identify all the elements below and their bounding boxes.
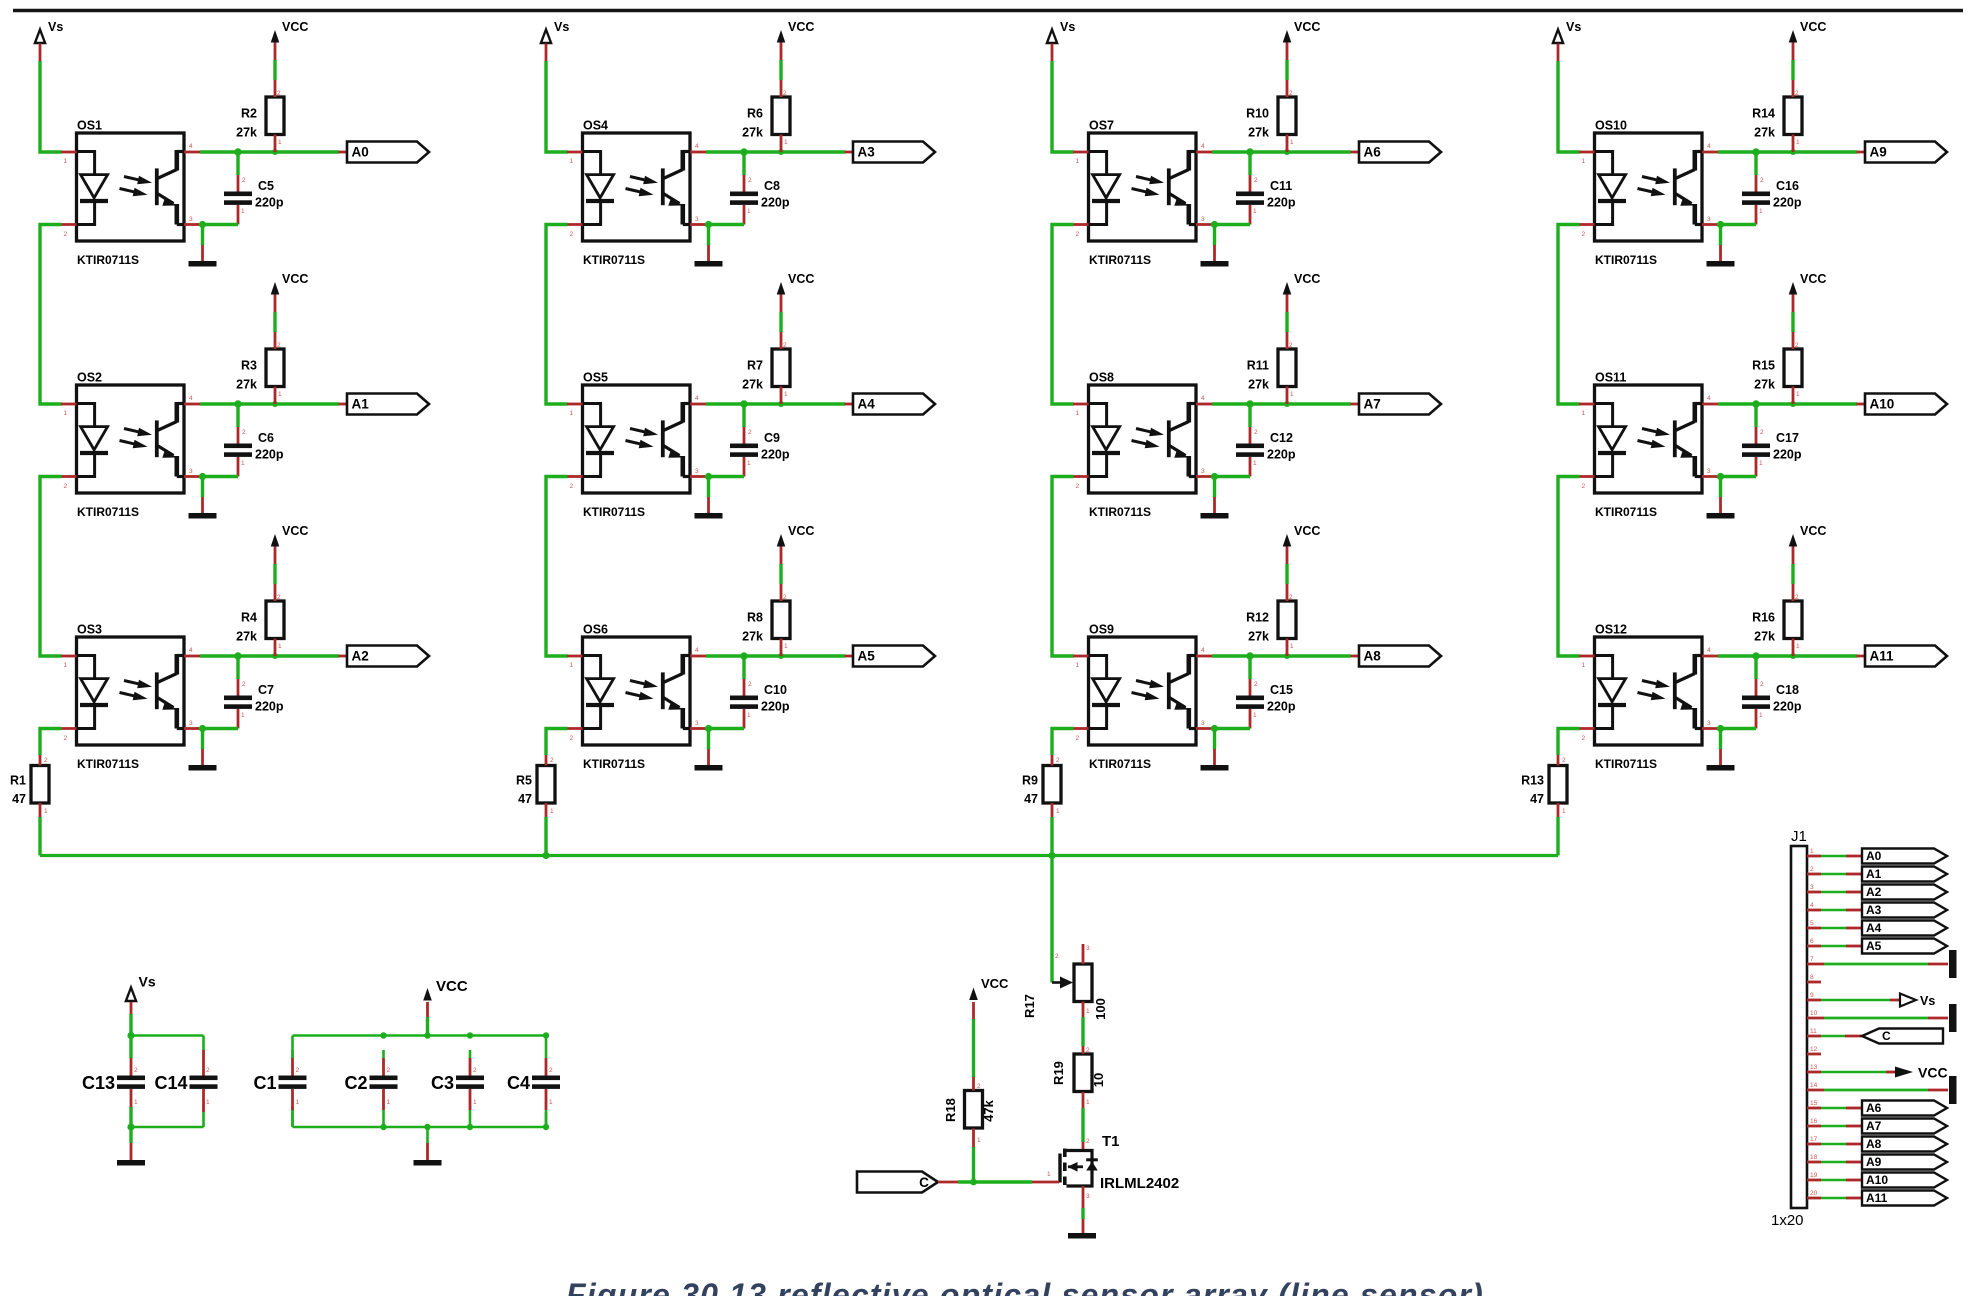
svg-text:2: 2 xyxy=(783,342,787,349)
power symbol VCC row 1 col 2 xyxy=(777,20,815,80)
svg-text:1: 1 xyxy=(1810,848,1814,855)
wire emitter node row 3 col 1 xyxy=(199,725,238,732)
svg-text:OS10: OS10 xyxy=(1595,119,1627,133)
svg-text:1: 1 xyxy=(1796,139,1800,146)
wire LED series rail row 1-2 col 3 xyxy=(1052,225,1074,405)
svg-text:R1: R1 xyxy=(10,774,26,788)
svg-text:4: 4 xyxy=(1707,143,1711,150)
svg-text:2: 2 xyxy=(1760,681,1764,688)
wire collector node row 1 col 4 xyxy=(1718,148,1857,155)
power symbol VCC row 2 col 3 xyxy=(1283,272,1321,332)
svg-text:4: 4 xyxy=(1201,395,1205,402)
svg-text:C7: C7 xyxy=(258,683,274,697)
resistor R10 27k xyxy=(1246,80,1296,152)
wire Vs rail (column 1) xyxy=(40,61,62,152)
output tag A2 xyxy=(339,646,430,667)
svg-text:20: 20 xyxy=(1810,1190,1818,1197)
svg-text:2: 2 xyxy=(570,735,574,742)
capacitor C2 xyxy=(344,1050,397,1127)
ground row 1 col 2 xyxy=(695,225,723,267)
svg-text:OS11: OS11 xyxy=(1595,371,1626,385)
svg-text:A1: A1 xyxy=(1866,867,1882,881)
svg-text:2: 2 xyxy=(783,594,787,601)
wire emitter node row 2 col 1 xyxy=(199,473,238,480)
resistor R14 27k xyxy=(1752,80,1802,152)
terminator bar xyxy=(1807,1076,1957,1104)
svg-text:KTIR0711S: KTIR0711S xyxy=(1595,505,1657,519)
svg-text:1: 1 xyxy=(549,1099,553,1106)
wire R9 to bus xyxy=(1050,817,1053,856)
svg-text:KTIR0711S: KTIR0711S xyxy=(77,253,139,267)
svg-text:A7: A7 xyxy=(1364,397,1381,412)
svg-text:R11: R11 xyxy=(1247,359,1269,373)
svg-text:R3: R3 xyxy=(241,359,257,373)
svg-text:1: 1 xyxy=(296,1099,300,1106)
transistor T1 IRLML2402 xyxy=(1047,1133,1179,1200)
svg-text:1: 1 xyxy=(1076,158,1080,165)
svg-text:3: 3 xyxy=(1086,1193,1090,1200)
capacitor C12 220p xyxy=(1236,404,1296,477)
svg-text:1: 1 xyxy=(64,410,68,417)
svg-text:R7: R7 xyxy=(747,359,763,373)
svg-text:27k: 27k xyxy=(1248,378,1269,392)
svg-text:Vs: Vs xyxy=(48,20,63,34)
svg-text:A11: A11 xyxy=(1870,649,1895,664)
svg-text:Vs: Vs xyxy=(1920,994,1935,1008)
wire LED series rail row 1-2 col 1 xyxy=(40,225,62,405)
wire collector node row 3 col 2 xyxy=(706,652,845,659)
svg-text:A5: A5 xyxy=(858,649,876,664)
svg-text:14: 14 xyxy=(1810,1082,1818,1089)
svg-text:2: 2 xyxy=(134,1067,138,1074)
wire emitter node row 3 col 2 xyxy=(705,725,744,732)
svg-text:27k: 27k xyxy=(1248,126,1269,140)
wire emitter node row 1 col 1 xyxy=(199,221,238,228)
svg-text:1: 1 xyxy=(1562,808,1566,815)
resistor R13 47 xyxy=(1521,755,1567,817)
svg-text:1: 1 xyxy=(44,808,48,815)
wire T1 source to ground xyxy=(1082,1186,1085,1233)
resistor R11 27k xyxy=(1247,332,1296,404)
connector tag A10 xyxy=(1807,1173,1947,1188)
svg-text:3: 3 xyxy=(1201,720,1205,727)
output tag A1 xyxy=(339,394,430,415)
wire emitter node row 1 col 4 xyxy=(1717,221,1756,228)
svg-text:1: 1 xyxy=(278,391,282,398)
svg-text:1: 1 xyxy=(1056,808,1060,815)
svg-text:1: 1 xyxy=(570,410,574,417)
svg-text:2: 2 xyxy=(242,681,246,688)
svg-text:C: C xyxy=(1882,1029,1891,1043)
svg-text:220p: 220p xyxy=(255,196,284,210)
svg-text:1: 1 xyxy=(1582,410,1586,417)
svg-text:1: 1 xyxy=(1759,712,1763,719)
wire collector node row 3 col 3 xyxy=(1212,652,1351,659)
svg-text:2: 2 xyxy=(1254,177,1258,184)
svg-text:4: 4 xyxy=(1707,395,1711,402)
output tag A8 xyxy=(1351,646,1442,667)
svg-text:1: 1 xyxy=(977,1137,981,1144)
output tag A3 xyxy=(845,142,936,163)
svg-text:KTIR0711S: KTIR0711S xyxy=(1089,253,1151,267)
terminator bar xyxy=(1807,950,1957,978)
ground row 3 col 1 xyxy=(189,729,217,771)
svg-text:A6: A6 xyxy=(1866,1101,1882,1115)
svg-text:KTIR0711S: KTIR0711S xyxy=(583,757,645,771)
power symbol Vs (column 3) xyxy=(1047,20,1075,61)
svg-text:2: 2 xyxy=(748,681,752,688)
svg-text:27k: 27k xyxy=(742,378,763,392)
svg-text:R14: R14 xyxy=(1752,107,1775,121)
output tag A7 xyxy=(1351,394,1442,415)
resistor R5 47 xyxy=(516,755,555,817)
svg-text:A3: A3 xyxy=(1866,903,1882,917)
svg-text:2: 2 xyxy=(977,1083,981,1090)
svg-text:220p: 220p xyxy=(1267,700,1296,714)
svg-text:C10: C10 xyxy=(764,683,787,697)
wire collector node row 1 col 3 xyxy=(1212,148,1351,155)
power symbol VCC above R18 xyxy=(969,976,1009,1077)
svg-text:18: 18 xyxy=(1810,1154,1818,1161)
ground row 2 col 1 xyxy=(189,477,217,519)
svg-text:2: 2 xyxy=(473,1067,477,1074)
svg-text:16: 16 xyxy=(1810,1118,1818,1125)
svg-text:2: 2 xyxy=(748,177,752,184)
resistor R7 27k xyxy=(742,332,790,404)
optocoupler OS5 KTIR0711S xyxy=(567,371,706,520)
svg-text:C13: C13 xyxy=(82,1073,115,1093)
svg-text:R9: R9 xyxy=(1022,774,1038,788)
optocoupler OS9 KTIR0711S xyxy=(1073,623,1212,772)
svg-text:Vs: Vs xyxy=(554,20,569,34)
svg-text:2: 2 xyxy=(44,757,48,764)
connector tag A6 xyxy=(1807,1101,1947,1116)
svg-text:VCC: VCC xyxy=(788,272,814,286)
svg-text:C4: C4 xyxy=(507,1073,530,1093)
svg-text:C17: C17 xyxy=(1776,431,1799,445)
svg-text:A9: A9 xyxy=(1866,1155,1882,1169)
svg-text:2: 2 xyxy=(64,483,68,490)
svg-text:VCC: VCC xyxy=(788,20,814,34)
ground bypass VCC group xyxy=(414,1127,442,1166)
wire common bus xyxy=(40,852,1558,859)
power symbol VCC row 3 col 2 xyxy=(777,524,815,584)
wire collector node row 2 col 2 xyxy=(706,400,845,407)
connector tag A2 xyxy=(1807,885,1947,900)
power symbol VCC row 1 col 3 xyxy=(1283,20,1321,80)
svg-text:4: 4 xyxy=(1707,647,1711,654)
svg-text:OS4: OS4 xyxy=(583,119,608,133)
svg-text:1: 1 xyxy=(1086,1008,1090,1015)
svg-text:2: 2 xyxy=(242,429,246,436)
svg-text:1: 1 xyxy=(550,808,554,815)
svg-text:KTIR0711S: KTIR0711S xyxy=(1595,757,1657,771)
connector tag A7 xyxy=(1807,1119,1947,1134)
wire emitter node row 1 col 2 xyxy=(705,221,744,228)
svg-text:17: 17 xyxy=(1810,1136,1818,1143)
svg-text:VCC: VCC xyxy=(1800,272,1826,286)
svg-text:2: 2 xyxy=(570,231,574,238)
svg-text:2: 2 xyxy=(1562,757,1566,764)
svg-text:J1: J1 xyxy=(1791,828,1807,845)
svg-text:A8: A8 xyxy=(1866,1137,1882,1151)
svg-text:A1: A1 xyxy=(352,397,370,412)
svg-text:2: 2 xyxy=(1056,757,1060,764)
ground row 2 col 4 xyxy=(1707,477,1735,519)
svg-text:A10: A10 xyxy=(1866,1173,1888,1187)
wire LED series rail row 2-3 col 2 xyxy=(546,477,568,657)
power symbol VCC row 2 col 4 xyxy=(1789,272,1827,332)
svg-text:C12: C12 xyxy=(1270,431,1293,445)
wire LED series rail row 2-3 col 4 xyxy=(1558,477,1580,657)
svg-text:1: 1 xyxy=(747,460,751,467)
connector tag A0 xyxy=(1807,849,1947,864)
svg-text:R17: R17 xyxy=(1022,994,1037,1018)
capacitor C8 220p xyxy=(730,152,790,225)
svg-text:220p: 220p xyxy=(761,196,790,210)
resistor R12 27k xyxy=(1246,584,1296,656)
svg-text:1: 1 xyxy=(1290,391,1294,398)
svg-text:OS9: OS9 xyxy=(1089,623,1114,637)
power symbol Vs (bypass group) xyxy=(126,974,156,1036)
svg-text:27k: 27k xyxy=(236,126,257,140)
svg-text:2: 2 xyxy=(1086,1047,1090,1054)
svg-text:2: 2 xyxy=(1810,866,1814,873)
svg-text:Figure 30.13 reflective optica: Figure 30.13 reflective optical sensor a… xyxy=(566,1277,1484,1296)
svg-text:A9: A9 xyxy=(1870,145,1887,160)
capacitor C3 xyxy=(431,1050,484,1127)
svg-text:2: 2 xyxy=(296,1067,300,1074)
ground bypass Vs group xyxy=(117,1127,145,1166)
svg-text:R19: R19 xyxy=(1051,1061,1066,1085)
svg-text:13: 13 xyxy=(1810,1064,1818,1071)
svg-text:7: 7 xyxy=(1810,956,1814,963)
svg-text:OS5: OS5 xyxy=(583,371,608,385)
wire VCC bypass rails xyxy=(293,1032,550,1130)
svg-text:1: 1 xyxy=(1290,643,1294,650)
power symbol VCC row 2 col 1 xyxy=(271,272,309,332)
power symbol VCC row 1 col 4 xyxy=(1789,20,1827,80)
wire rail to R13 col 4 xyxy=(1558,729,1580,756)
wire emitter node row 2 col 3 xyxy=(1211,473,1250,480)
resistor R16 27k xyxy=(1752,584,1802,656)
svg-text:220p: 220p xyxy=(761,448,790,462)
svg-text:1: 1 xyxy=(241,460,245,467)
svg-text:OS3: OS3 xyxy=(77,623,102,637)
svg-text:R15: R15 xyxy=(1752,359,1775,373)
output tag A4 xyxy=(845,394,936,415)
terminator bar xyxy=(1807,1004,1957,1032)
wire LED series rail row 2-3 col 1 xyxy=(40,477,62,657)
svg-text:R6: R6 xyxy=(747,107,763,121)
capacitor C7 220p xyxy=(224,656,284,729)
svg-text:220p: 220p xyxy=(1773,448,1802,462)
svg-text:OS6: OS6 xyxy=(583,623,608,637)
svg-text:4: 4 xyxy=(189,395,193,402)
unconnected pin 8 xyxy=(1807,981,1821,984)
svg-text:4: 4 xyxy=(695,395,699,402)
svg-text:VCC: VCC xyxy=(1294,524,1320,538)
net flag Vs xyxy=(1807,994,1935,1009)
svg-text:3: 3 xyxy=(1707,216,1711,223)
svg-text:C11: C11 xyxy=(1270,179,1292,193)
svg-text:1: 1 xyxy=(1253,712,1257,719)
svg-text:1: 1 xyxy=(1796,391,1800,398)
svg-text:27k: 27k xyxy=(236,378,257,392)
svg-text:C15: C15 xyxy=(1270,683,1293,697)
resistor R2 27k xyxy=(236,80,284,152)
wire emitter node row 1 col 3 xyxy=(1211,221,1250,228)
optocoupler OS12 KTIR0711S xyxy=(1579,623,1718,772)
connector J1 1x20 xyxy=(1771,828,1807,1229)
svg-text:2: 2 xyxy=(783,90,787,97)
svg-text:3: 3 xyxy=(189,216,193,223)
svg-text:2: 2 xyxy=(1760,429,1764,436)
svg-text:1: 1 xyxy=(241,208,245,215)
svg-text:VCC: VCC xyxy=(1800,20,1826,34)
unconnected pin 12 xyxy=(1807,1053,1821,1056)
svg-text:2: 2 xyxy=(1254,681,1258,688)
ground T1 source xyxy=(1068,1233,1096,1239)
wire Vs rail (column 2) xyxy=(546,61,568,152)
wire emitter node row 2 col 4 xyxy=(1717,473,1756,480)
svg-text:KTIR0711S: KTIR0711S xyxy=(1089,505,1151,519)
wire collector node row 1 col 1 xyxy=(200,148,339,155)
power symbol VCC row 3 col 3 xyxy=(1283,524,1321,584)
svg-text:2: 2 xyxy=(1076,483,1080,490)
optocoupler OS8 KTIR0711S xyxy=(1073,371,1212,520)
wire R17 to R19 xyxy=(1081,1017,1084,1046)
svg-text:1: 1 xyxy=(1253,208,1257,215)
svg-text:OS12: OS12 xyxy=(1595,623,1627,637)
svg-text:A7: A7 xyxy=(1866,1119,1882,1133)
svg-text:VCC: VCC xyxy=(436,978,468,995)
svg-text:R5: R5 xyxy=(516,774,532,788)
svg-text:1: 1 xyxy=(747,208,751,215)
ground row 1 col 4 xyxy=(1707,225,1735,267)
svg-text:1: 1 xyxy=(784,391,788,398)
ground row 3 col 2 xyxy=(695,729,723,771)
svg-text:1: 1 xyxy=(1290,139,1294,146)
output tag A5 xyxy=(845,646,936,667)
svg-text:OS7: OS7 xyxy=(1089,119,1114,133)
capacitor C13 xyxy=(82,1058,145,1107)
output tag A11 xyxy=(1857,646,1948,667)
svg-text:2: 2 xyxy=(748,429,752,436)
connector tag A9 xyxy=(1807,1155,1947,1170)
svg-text:2: 2 xyxy=(277,342,281,349)
power symbol VCC row 3 col 4 xyxy=(1789,524,1827,584)
resistor R6 27k xyxy=(742,80,790,152)
svg-text:11: 11 xyxy=(1810,1028,1817,1035)
svg-text:3: 3 xyxy=(1201,216,1205,223)
svg-text:9: 9 xyxy=(1810,992,1814,999)
wire rail to R5 col 2 xyxy=(546,729,568,756)
svg-text:A4: A4 xyxy=(1866,921,1882,935)
svg-text:220p: 220p xyxy=(255,448,284,462)
ground row 2 col 2 xyxy=(695,477,723,519)
svg-text:2: 2 xyxy=(550,757,554,764)
resistor R3 27k xyxy=(236,332,284,404)
svg-text:1: 1 xyxy=(1582,662,1586,669)
wire R13 to bus xyxy=(1556,817,1559,856)
power symbol VCC row 2 col 2 xyxy=(777,272,815,332)
svg-text:47: 47 xyxy=(1530,792,1544,806)
svg-text:3: 3 xyxy=(695,720,699,727)
resistor R9 47 xyxy=(1022,755,1061,817)
power symbol Vs (column 1) xyxy=(35,20,63,61)
wire Vs rail (column 3) xyxy=(1052,61,1074,152)
ground row 1 col 3 xyxy=(1201,225,1229,267)
svg-text:C8: C8 xyxy=(764,179,780,193)
power symbol Vs (column 4) xyxy=(1553,20,1581,61)
svg-text:1: 1 xyxy=(473,1099,477,1106)
svg-text:R12: R12 xyxy=(1246,611,1269,625)
svg-text:1: 1 xyxy=(278,643,282,650)
svg-text:1: 1 xyxy=(1759,208,1763,215)
svg-text:2: 2 xyxy=(1086,1138,1090,1145)
svg-text:VCC: VCC xyxy=(282,524,308,538)
connector tag A8 xyxy=(1807,1137,1947,1152)
svg-text:2: 2 xyxy=(64,735,68,742)
svg-text:2: 2 xyxy=(1582,735,1586,742)
output tag A0 xyxy=(339,142,430,163)
svg-text:1x20: 1x20 xyxy=(1771,1212,1804,1229)
power symbol VCC row 3 col 1 xyxy=(271,524,309,584)
wire LED series rail row 2-3 col 3 xyxy=(1052,477,1074,657)
resistor R4 27k xyxy=(236,584,284,656)
wire R5 to bus xyxy=(544,817,547,856)
optocoupler OS1 KTIR0711S xyxy=(61,119,200,268)
svg-text:3: 3 xyxy=(189,468,193,475)
output tag A6 xyxy=(1351,142,1442,163)
svg-text:3: 3 xyxy=(1201,468,1205,475)
svg-text:2: 2 xyxy=(1254,429,1258,436)
svg-text:A2: A2 xyxy=(1866,885,1882,899)
svg-text:C16: C16 xyxy=(1776,179,1799,193)
svg-text:5: 5 xyxy=(1810,920,1814,927)
capacitor C9 220p xyxy=(730,404,790,477)
capacitor C18 220p xyxy=(1742,656,1802,729)
svg-text:4: 4 xyxy=(189,143,193,150)
svg-text:4: 4 xyxy=(1201,143,1205,150)
svg-text:4: 4 xyxy=(695,143,699,150)
svg-text:C6: C6 xyxy=(258,431,274,445)
ground row 3 col 3 xyxy=(1201,729,1229,771)
svg-text:1: 1 xyxy=(278,139,282,146)
svg-text:KTIR0711S: KTIR0711S xyxy=(1595,253,1657,267)
output tag A9 xyxy=(1857,142,1948,163)
svg-text:1: 1 xyxy=(747,712,751,719)
resistor R15 27k xyxy=(1752,332,1802,404)
svg-text:Vs: Vs xyxy=(1566,20,1581,34)
svg-text:A2: A2 xyxy=(352,649,369,664)
svg-text:47: 47 xyxy=(1024,792,1038,806)
wire rail to R9 col 3 xyxy=(1052,729,1074,756)
wire Vs rail (column 4) xyxy=(1558,61,1580,152)
svg-text:4: 4 xyxy=(1201,647,1205,654)
svg-text:KTIR0711S: KTIR0711S xyxy=(77,505,139,519)
svg-text:15: 15 xyxy=(1810,1100,1818,1107)
capacitor C1 xyxy=(253,1050,306,1127)
optocoupler OS10 KTIR0711S xyxy=(1579,119,1718,268)
svg-text:100: 100 xyxy=(1093,998,1108,1020)
optocoupler OS7 KTIR0711S xyxy=(1073,119,1212,268)
svg-text:C: C xyxy=(919,1175,929,1190)
svg-text:2: 2 xyxy=(1055,953,1059,960)
svg-text:Vs: Vs xyxy=(1060,20,1075,34)
capacitor C16 220p xyxy=(1742,152,1802,225)
